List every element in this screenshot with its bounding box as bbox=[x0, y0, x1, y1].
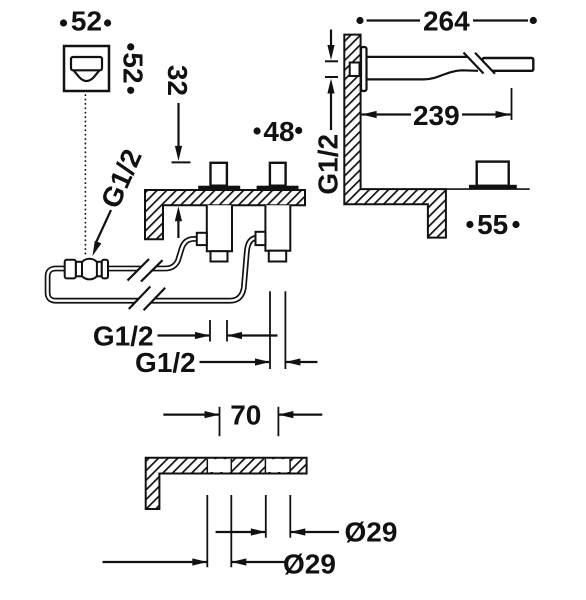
svg-text:G1/2: G1/2 bbox=[313, 134, 344, 195]
svg-text:Ø29: Ø29 bbox=[345, 516, 398, 547]
svg-text:48: 48 bbox=[263, 116, 294, 147]
svg-text:264: 264 bbox=[423, 6, 470, 37]
svg-text:32: 32 bbox=[162, 65, 193, 96]
svg-text:G1/2: G1/2 bbox=[135, 347, 196, 378]
svg-text:239: 239 bbox=[413, 100, 460, 131]
svg-text:70: 70 bbox=[230, 400, 261, 431]
svg-text:52: 52 bbox=[118, 52, 149, 83]
svg-text:Ø29: Ø29 bbox=[283, 549, 336, 580]
svg-text:55: 55 bbox=[477, 209, 508, 240]
svg-text:52: 52 bbox=[71, 6, 102, 37]
